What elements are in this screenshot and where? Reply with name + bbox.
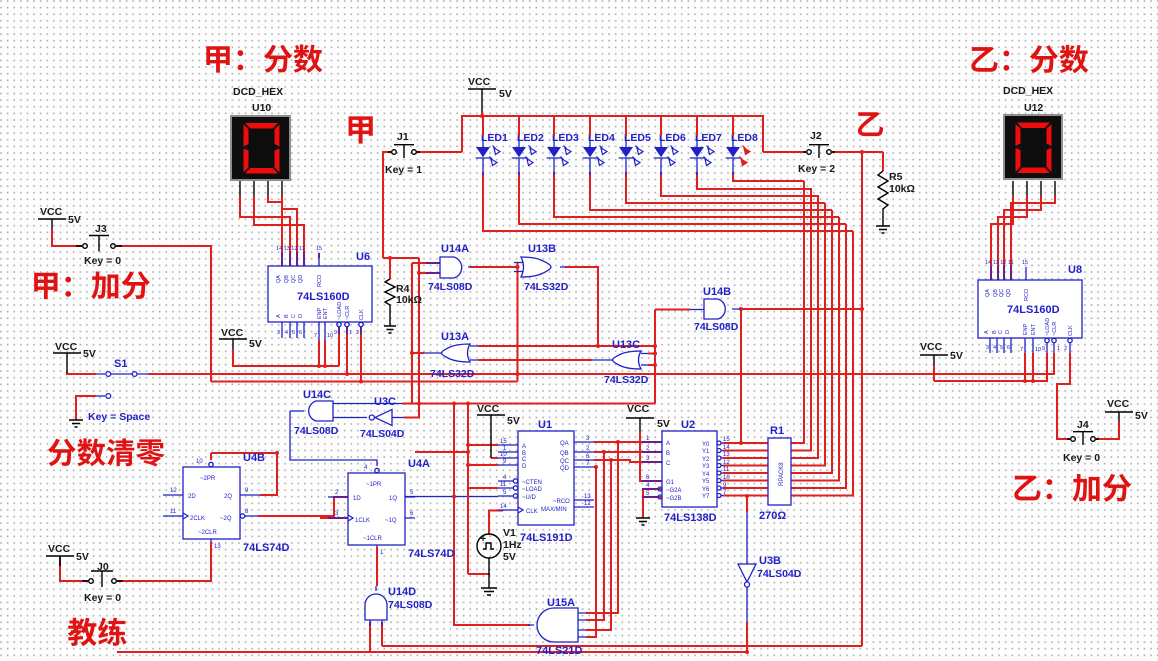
- wire vertical x419: [418, 258, 420, 404]
- svg-text:74LS74D: 74LS74D: [243, 542, 290, 554]
- wire LED5 cathode run: [626, 172, 825, 203]
- wire J1 left down: [383, 152, 391, 258]
- svg-text:7: 7: [586, 461, 590, 467]
- wire U13C in1 tap: [648, 353, 655, 355]
- svg-text:2D: 2D: [188, 494, 196, 500]
- svg-text:B: B: [284, 314, 290, 318]
- LED1: [476, 116, 508, 175]
- svg-text:VCC: VCC: [221, 327, 244, 339]
- wire QD row: [594, 466, 596, 468]
- svg-text:U14D: U14D: [388, 586, 416, 598]
- ic U8 74LS160D: [978, 260, 1082, 353]
- gate U3B NOT (points down): [738, 548, 802, 590]
- wire VCC to S1: [67, 372, 96, 374]
- vcc U6 enables: [219, 327, 262, 350]
- wire to U14A lower input: [419, 272, 440, 274]
- svg-text:~RCO: ~RCO: [553, 499, 570, 505]
- svg-text:5V: 5V: [507, 415, 520, 427]
- svg-text:5V: 5V: [1135, 410, 1148, 422]
- svg-text:15: 15: [316, 246, 322, 252]
- svg-text:74LS32D: 74LS32D: [604, 374, 649, 386]
- svg-text:LED8: LED8: [731, 132, 758, 144]
- svg-text:14 13 12 11: 14 13 12 11: [985, 260, 1014, 266]
- svg-text:U4B: U4B: [243, 452, 265, 464]
- svg-text:+: +: [480, 533, 486, 545]
- svg-text:LED6: LED6: [659, 132, 686, 144]
- svg-text:6: 6: [299, 330, 302, 336]
- wire preset feed row y453: [211, 452, 277, 454]
- svg-text:74LS08D: 74LS08D: [694, 321, 739, 333]
- wire bottom line B: [117, 651, 747, 653]
- svg-text:2CLK: 2CLK: [190, 516, 205, 522]
- svg-text:VCC: VCC: [1107, 398, 1130, 410]
- wire right main vertical x=862: [861, 152, 863, 646]
- svg-text:LED1: LED1: [481, 132, 508, 144]
- svg-text:~LOAD: ~LOAD: [522, 487, 543, 493]
- wire U12 pin3 to U8: [1004, 196, 1041, 280]
- svg-text:4: 4: [285, 330, 288, 336]
- svg-text:R1: R1: [770, 425, 784, 437]
- wire x517 vertical to clear line: [517, 262, 519, 382]
- wire R1 out 4 riser: [791, 210, 832, 473]
- wire QC down to U15A: [586, 460, 611, 630]
- label yi: [858, 112, 883, 136]
- svg-text:Y3: Y3: [702, 464, 710, 470]
- svg-text:QA: QA: [985, 289, 991, 297]
- svg-text:9: 9: [503, 459, 507, 465]
- svg-text:U14C: U14C: [303, 389, 331, 401]
- wire U2 Y2 to R1: [723, 457, 768, 459]
- wire to U14A upper input: [412, 262, 440, 264]
- svg-text:S1: S1: [114, 358, 127, 370]
- svg-text:1D: 1D: [353, 496, 361, 502]
- ground S1: [69, 420, 83, 427]
- svg-text:J3: J3: [95, 223, 107, 235]
- wire R1 out 5 riser: [791, 217, 839, 481]
- svg-text:LED5: LED5: [624, 132, 651, 144]
- svg-text:4: 4: [993, 345, 996, 351]
- svg-text:U2: U2: [681, 419, 695, 431]
- wire R1 out 7 riser: [791, 231, 853, 496]
- wire U14B input: [655, 309, 690, 311]
- svg-text:B: B: [666, 451, 670, 457]
- svg-text:6: 6: [410, 511, 414, 517]
- wire R4 top lead: [389, 258, 391, 279]
- svg-text:10: 10: [327, 333, 333, 339]
- switch J2: [798, 130, 835, 175]
- svg-text:~U/D: ~U/D: [522, 495, 537, 501]
- wire U10 pin4 to U6: [282, 196, 297, 266]
- svg-text:J1: J1: [397, 131, 409, 143]
- svg-text:VCC: VCC: [468, 76, 491, 88]
- wire U1 B feed from left: [415, 451, 468, 453]
- svg-text:~CLR: ~CLR: [1052, 322, 1058, 336]
- svg-text:270Ω: 270Ω: [759, 510, 786, 522]
- ic U6 74LS160D: [268, 246, 372, 340]
- svg-text:U3C: U3C: [374, 396, 396, 408]
- svg-text:D: D: [298, 314, 304, 318]
- vcc J3: [38, 206, 81, 229]
- gate U15A AND4 (points left): [528, 597, 586, 657]
- svg-text:U13C: U13C: [612, 339, 640, 351]
- wire LED1 cathode run: [483, 172, 853, 231]
- svg-text:12: 12: [584, 501, 591, 507]
- switch J0: [82, 561, 123, 604]
- svg-text:~LOAD: ~LOAD: [337, 302, 343, 320]
- wire U2 G2A to ground: [643, 489, 662, 518]
- wire vertical x412: [411, 263, 413, 404]
- svg-text:7: 7: [1020, 347, 1023, 353]
- svg-text:C: C: [522, 457, 527, 463]
- svg-text:9: 9: [334, 330, 337, 336]
- svg-text:3: 3: [335, 511, 339, 517]
- svg-text:QD: QD: [560, 466, 570, 472]
- svg-text:3: 3: [277, 330, 280, 336]
- switch S1: [88, 358, 150, 423]
- svg-text:QA: QA: [276, 275, 282, 283]
- wire U2 Y1 to R1: [723, 450, 768, 452]
- vcc LED bus: [468, 76, 512, 116]
- label yi-fenshu: [971, 45, 1088, 73]
- svg-text:5: 5: [503, 490, 507, 496]
- wire QC row: [594, 460, 662, 462]
- svg-text:Key = 0: Key = 0: [84, 255, 121, 267]
- wire J1 / R4 node row: [383, 257, 419, 259]
- svg-text:74LS08D: 74LS08D: [294, 425, 339, 437]
- display U10 DCD_HEX: [231, 86, 290, 196]
- svg-text:6: 6: [1007, 345, 1010, 351]
- wire V1 to U1 CLK: [489, 511, 503, 535]
- svg-text:RPACK8: RPACK8: [779, 462, 785, 486]
- svg-text:Key = 0: Key = 0: [84, 592, 121, 604]
- svg-text:Y2: Y2: [702, 457, 710, 463]
- svg-text:D: D: [1005, 330, 1011, 334]
- svg-text:ENT: ENT: [323, 307, 329, 319]
- svg-text:C: C: [666, 461, 671, 467]
- wire VCC to J3: [52, 229, 82, 246]
- svg-text:~G2B: ~G2B: [666, 496, 682, 502]
- wire U8 ENT down: [1032, 353, 1034, 381]
- svg-text:U13B: U13B: [528, 243, 556, 255]
- wire LED4 cathode run: [590, 172, 832, 210]
- svg-text:VCC: VCC: [40, 206, 63, 218]
- wire U4A clock feed: [320, 517, 348, 519]
- svg-text:QC: QC: [291, 275, 297, 283]
- svg-text:Y6: Y6: [702, 487, 710, 493]
- svg-text:ENT: ENT: [1031, 323, 1037, 335]
- svg-text:2: 2: [356, 330, 359, 336]
- svg-text:1Hz: 1Hz: [503, 539, 522, 551]
- svg-text:VCC: VCC: [477, 403, 500, 415]
- wire U6 CLK pin down to J3 line: [360, 327, 362, 382]
- wire J3 down to clear line: [116, 246, 211, 382]
- wire U4B to U4A 1D: [258, 497, 348, 516]
- wire LED supply bus: [462, 116, 763, 152]
- LED7: [690, 116, 722, 175]
- LED2: [512, 116, 544, 175]
- wire U14C out to U4A preset (blue): [290, 411, 377, 466]
- svg-text:Key = 2: Key = 2: [798, 163, 835, 175]
- svg-text:U14A: U14A: [441, 243, 469, 255]
- svg-text:5V: 5V: [68, 214, 81, 226]
- svg-text:A: A: [984, 330, 990, 334]
- svg-text:RCO: RCO: [317, 274, 323, 287]
- svg-text:74LS191D: 74LS191D: [520, 532, 573, 544]
- wire R1 out 1 riser: [791, 188, 811, 451]
- wire LED2 cathode run: [519, 172, 846, 224]
- svg-text:5V: 5V: [499, 88, 512, 100]
- gate U3C NOT (points left): [360, 396, 405, 440]
- svg-text:11: 11: [170, 509, 177, 515]
- gate U14C AND (points left): [290, 389, 402, 437]
- svg-text:U8: U8: [1068, 264, 1082, 276]
- svg-text:MAX/MIN: MAX/MIN: [541, 507, 567, 513]
- svg-text:Y5: Y5: [702, 479, 710, 485]
- svg-text:74LS08D: 74LS08D: [388, 599, 433, 611]
- svg-text:~1Q: ~1Q: [385, 518, 397, 524]
- vcc J4: [1105, 398, 1148, 422]
- svg-text:CLK: CLK: [1068, 325, 1074, 336]
- wire U14D input A down: [369, 622, 371, 652]
- resistor pack R1: [759, 425, 791, 522]
- svg-text:R5: R5: [889, 171, 903, 183]
- LED5: [619, 116, 651, 175]
- svg-text:10kΩ: 10kΩ: [396, 294, 422, 306]
- wire S1 long line y374: [148, 353, 1054, 374]
- wire bus to J2 left: [763, 151, 806, 153]
- svg-text:~CTEN: ~CTEN: [522, 480, 542, 486]
- svg-text:11: 11: [723, 467, 730, 473]
- wire to V1 bottom: [468, 573, 490, 575]
- svg-text:U6: U6: [356, 251, 370, 263]
- wire U10 pin2 to U6: [254, 196, 304, 266]
- wire U6 CLR pin down to S1 line: [346, 327, 348, 374]
- svg-text:U15A: U15A: [547, 597, 575, 609]
- wire R1 out 0 riser: [791, 181, 804, 443]
- svg-text:A: A: [666, 441, 670, 447]
- LED6: [654, 116, 686, 175]
- svg-text:U14B: U14B: [703, 286, 731, 298]
- wire VCC to U2 G1: [640, 432, 662, 481]
- svg-text:2Q: 2Q: [224, 494, 232, 500]
- svg-text:Y1: Y1: [702, 449, 710, 455]
- svg-text:U1: U1: [538, 419, 552, 431]
- gate U13A OR (points left): [424, 331, 478, 380]
- svg-text:13: 13: [723, 452, 730, 458]
- wire U1 LOAD feed: [468, 487, 498, 489]
- wire U2 Y4 to R1: [723, 472, 768, 474]
- wire R1 out 3 riser: [791, 203, 825, 466]
- svg-text:~2Q: ~2Q: [220, 516, 232, 522]
- svg-text:14 13 12 11: 14 13 12 11: [276, 246, 305, 252]
- wire U2 Y7 to R1: [723, 495, 768, 497]
- wire QB down to U15A: [586, 452, 604, 620]
- label jia-fenshu: [206, 45, 322, 73]
- svg-text:15: 15: [1022, 260, 1028, 266]
- svg-text:4: 4: [503, 475, 507, 481]
- wire U12 pin4 to U8: [1011, 196, 1055, 280]
- wire QB row: [594, 451, 662, 453]
- svg-text:U10: U10: [252, 102, 271, 114]
- svg-text:5V: 5V: [657, 418, 670, 430]
- svg-text:5V: 5V: [950, 350, 963, 362]
- wire 2Q riser: [260, 453, 277, 495]
- wire J2 right to R5 node: [832, 151, 883, 153]
- svg-text:VCC: VCC: [48, 543, 71, 555]
- wire U13B out down to in1 line: [565, 267, 598, 346]
- wire VCC8 to line381: [933, 365, 935, 381]
- gate U13C OR (points left): [592, 339, 649, 386]
- wire U4A pin1 to U14D: [376, 547, 378, 586]
- LED3: [547, 116, 579, 175]
- wire U13C in2 tap: [648, 364, 655, 366]
- svg-text:74LS74D: 74LS74D: [408, 548, 455, 560]
- svg-text:~2CLR: ~2CLR: [198, 530, 218, 536]
- svg-text:A: A: [522, 444, 526, 450]
- wire QD down to U15A: [586, 467, 596, 637]
- svg-text:J2: J2: [810, 130, 822, 142]
- wire U14C in1 line y403: [402, 403, 655, 405]
- switch J3: [76, 223, 122, 267]
- svg-text:CLK: CLK: [526, 509, 538, 515]
- wire VCC8 line y381: [934, 353, 1047, 381]
- svg-text:1CLK: 1CLK: [355, 518, 370, 524]
- svg-text:5V: 5V: [83, 348, 96, 360]
- svg-text:10: 10: [1035, 347, 1041, 353]
- svg-text:3: 3: [586, 436, 590, 442]
- svg-text:10: 10: [500, 452, 507, 458]
- svg-text:~1CLR: ~1CLR: [363, 536, 383, 542]
- svg-text:5: 5: [410, 490, 414, 496]
- wire LED3 cathode run: [554, 172, 839, 217]
- ground under V1: [481, 558, 497, 595]
- svg-text:G1: G1: [666, 480, 675, 486]
- wire U2 Y6 to R1: [723, 487, 768, 489]
- wire U12 pin2 to U8: [998, 196, 1027, 280]
- wire U6 ENT down to VCC row: [324, 340, 326, 366]
- svg-text:D: D: [522, 464, 527, 470]
- wire LED6 cathode run: [661, 172, 818, 196]
- svg-text:~2PR: ~2PR: [200, 476, 216, 482]
- svg-text:VCC: VCC: [920, 341, 943, 353]
- svg-text:DCD_HEX: DCD_HEX: [233, 86, 283, 98]
- svg-text:Y4: Y4: [702, 472, 710, 478]
- wire VCC to J0: [60, 556, 88, 581]
- resistor R5: [876, 171, 915, 233]
- svg-text:74LS08D: 74LS08D: [428, 281, 473, 293]
- svg-text:10: 10: [723, 475, 730, 481]
- svg-text:V1: V1: [503, 527, 516, 539]
- wire U1 C feed from VCC: [491, 457, 498, 459]
- vcc U1: [477, 403, 520, 458]
- svg-text:RCO: RCO: [1024, 288, 1030, 301]
- gate U14D AND (points up): [365, 586, 433, 626]
- svg-text:7: 7: [314, 333, 317, 339]
- ic U2 74LS138D: [642, 419, 730, 524]
- svg-text:Key = Space: Key = Space: [88, 411, 150, 423]
- svg-text:5V: 5V: [76, 551, 89, 563]
- vcc J0: [46, 543, 89, 566]
- svg-text:14: 14: [723, 445, 730, 451]
- wire RCO stub down: [318, 253, 320, 258]
- svg-text:5: 5: [1000, 345, 1003, 351]
- svg-text:VCC: VCC: [627, 403, 650, 415]
- wire S1 lower throw to ground: [76, 396, 96, 420]
- svg-text:5V: 5V: [249, 338, 262, 350]
- wire U2 Y0 to R1: [723, 442, 768, 444]
- gate U14B AND: [690, 286, 740, 333]
- svg-text:~1PR: ~1PR: [366, 482, 382, 488]
- svg-text:LED3: LED3: [552, 132, 579, 144]
- svg-text:5V: 5V: [503, 551, 516, 563]
- svg-text:9: 9: [245, 488, 249, 494]
- wire Y7 down to U3B input: [746, 496, 748, 512]
- svg-text:74LS04D: 74LS04D: [757, 568, 802, 580]
- svg-text:J4: J4: [1077, 419, 1089, 431]
- wire bottom line A: [382, 645, 862, 647]
- svg-text:2: 2: [586, 446, 590, 452]
- wire U2 Y3 to R1: [723, 465, 768, 467]
- svg-text:74LS04D: 74LS04D: [360, 428, 405, 440]
- label fenshu-qingling: [48, 438, 165, 466]
- wire x655 vertical: [654, 310, 656, 404]
- svg-text:QD: QD: [298, 275, 304, 283]
- wire U6 ENP down to VCC row: [318, 340, 320, 366]
- svg-text:5: 5: [292, 330, 295, 336]
- label jia-jiafen: [34, 271, 150, 299]
- ic U4A 74LS74D: [328, 458, 455, 560]
- wire LED8 cathode run: [733, 172, 804, 181]
- svg-text:74LS138D: 74LS138D: [664, 512, 717, 524]
- wire vertical x468: [467, 404, 469, 575]
- wire J4 right to VCC: [1096, 422, 1119, 439]
- svg-text:QD: QD: [1006, 289, 1012, 297]
- wire VCC row to U6 enables: [233, 349, 339, 366]
- wire QA row: [594, 441, 662, 443]
- wire U13C out to U13A in2: [478, 359, 592, 361]
- wire in1 line y346: [478, 345, 655, 347]
- wire LED7 cathode run: [697, 172, 811, 189]
- wire U6 LOAD pin down to VCC row: [338, 327, 340, 366]
- wire R1 out 2 riser: [791, 195, 818, 458]
- led row LED1..LED8: [476, 116, 758, 175]
- svg-text:74LS32D: 74LS32D: [430, 368, 475, 380]
- wire branch down to Y0 row: [740, 309, 742, 443]
- wire U10 pin1 to U6: [240, 196, 290, 266]
- svg-text:74LS160D: 74LS160D: [1007, 304, 1060, 316]
- wire U14B out to x862: [740, 308, 862, 310]
- gate U13B OR: [514, 243, 569, 293]
- svg-text:U13A: U13A: [441, 331, 469, 343]
- gate U14A AND: [426, 243, 473, 293]
- svg-text:A: A: [276, 314, 282, 318]
- svg-text:10: 10: [196, 459, 203, 465]
- clock source V1: [477, 527, 522, 563]
- wire J1 right to bus: [417, 151, 462, 153]
- svg-text:LED7: LED7: [695, 132, 722, 144]
- svg-text:U4A: U4A: [408, 458, 430, 470]
- svg-text:12: 12: [723, 460, 730, 466]
- junction dots: [480, 114, 484, 118]
- wire U4B preset pin drop: [210, 453, 212, 460]
- switch J4: [1063, 419, 1100, 464]
- svg-text:Key = 0: Key = 0: [1063, 452, 1100, 464]
- svg-text:QC: QC: [999, 289, 1005, 297]
- wire U1 D feed: [468, 464, 498, 466]
- svg-text:13: 13: [214, 544, 221, 550]
- wire U15A out riser x454: [454, 404, 530, 626]
- svg-text:1: 1: [380, 550, 384, 556]
